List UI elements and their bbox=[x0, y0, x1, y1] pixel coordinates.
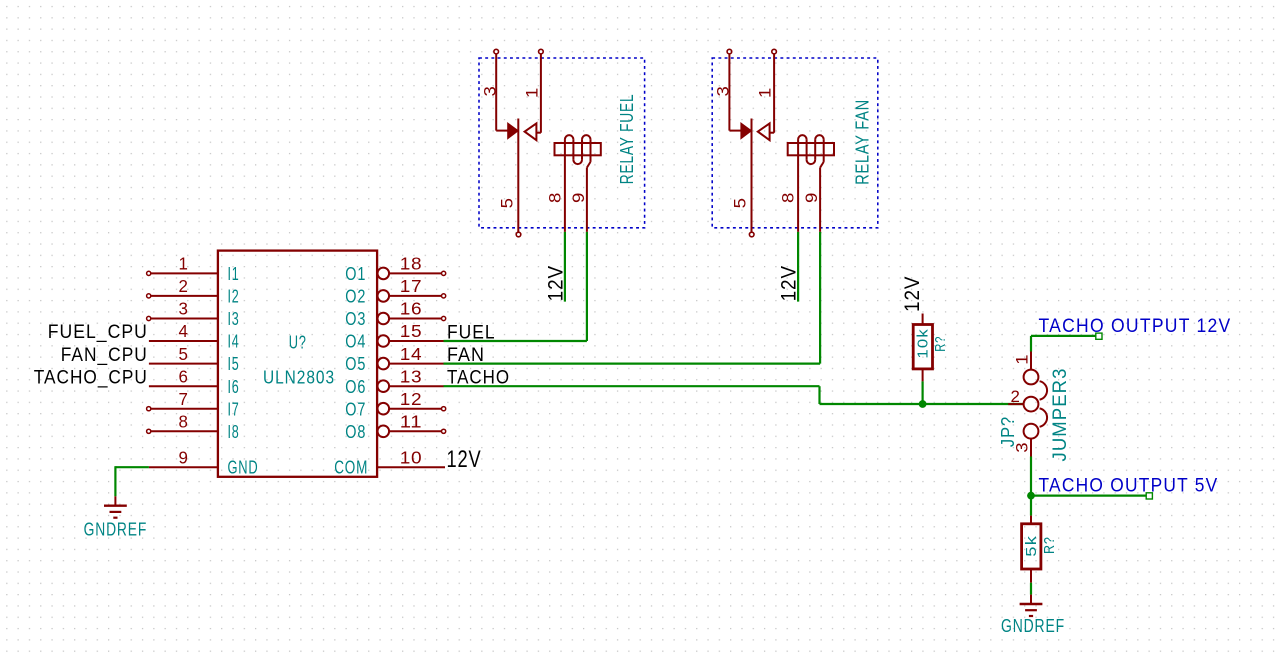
pin 2 (I2) of U? bbox=[147, 276, 240, 306]
resistor R? 5k bbox=[1022, 516, 1041, 583]
svg-text:U?: U? bbox=[289, 333, 307, 353]
relay box RELAY FAN bbox=[712, 58, 878, 228]
svg-text:6: 6 bbox=[179, 366, 189, 386]
svg-text:18: 18 bbox=[400, 254, 423, 274]
jumper pin 2 stub bbox=[1008, 403, 1024, 405]
svg-text:2: 2 bbox=[1011, 388, 1021, 406]
IC U? ULN2803 body bbox=[218, 251, 377, 477]
svg-text:I3: I3 bbox=[228, 309, 240, 329]
svg-text:JUMPER3: JUMPER3 bbox=[1050, 368, 1071, 462]
svg-text:COM: COM bbox=[334, 457, 368, 477]
svg-text:R?: R? bbox=[932, 336, 949, 352]
svg-text:14: 14 bbox=[400, 344, 423, 364]
svg-text:O6: O6 bbox=[345, 377, 366, 397]
svg-text:9: 9 bbox=[570, 192, 588, 203]
svg-text:5: 5 bbox=[732, 197, 750, 208]
pin 15 (O4) of U? bbox=[345, 321, 443, 351]
resistor R? 10k bbox=[913, 314, 932, 382]
svg-text:8: 8 bbox=[546, 192, 564, 203]
relay K? pin 5 (common lever) bbox=[749, 119, 754, 237]
svg-text:TACHO_CPU: TACHO_CPU bbox=[34, 367, 148, 388]
ground GNDREF (right) bbox=[1020, 595, 1043, 616]
svg-text:I7: I7 bbox=[228, 399, 240, 419]
dangling end square (5V output) bbox=[1146, 493, 1152, 499]
pin 13 (O6) of U? bbox=[345, 366, 443, 396]
pin 7 (I7) of U? bbox=[147, 389, 240, 419]
jumper pin 3 stub bbox=[1030, 438, 1032, 456]
svg-text:8: 8 bbox=[780, 192, 798, 203]
svg-text:13: 13 bbox=[400, 366, 423, 386]
pin 8 (I8) of U? bbox=[147, 412, 240, 442]
ground GNDREF (left) bbox=[104, 496, 127, 517]
svg-text:5: 5 bbox=[498, 197, 516, 208]
svg-text:O5: O5 bbox=[345, 354, 366, 374]
svg-text:R?: R? bbox=[1041, 536, 1058, 554]
pin 5 (I5) of U? bbox=[149, 344, 240, 374]
svg-text:I2: I2 bbox=[228, 287, 240, 307]
svg-text:12V: 12V bbox=[900, 276, 924, 313]
wire jumper pin1 up and right bbox=[1031, 336, 1096, 352]
svg-text:JP?: JP? bbox=[998, 416, 1018, 447]
svg-text:1: 1 bbox=[1014, 354, 1032, 365]
svg-text:5k: 5k bbox=[1023, 535, 1040, 557]
svg-text:3: 3 bbox=[715, 86, 733, 97]
pin 9 (GND) of U? bbox=[149, 447, 259, 477]
pin 14 (O5) of U? bbox=[345, 344, 443, 374]
svg-text:10: 10 bbox=[400, 447, 423, 467]
svg-text:11: 11 bbox=[400, 412, 423, 432]
pin 3 (I3) of U? bbox=[147, 299, 240, 329]
junction on TACHO net bbox=[919, 400, 927, 408]
relay K? coil bbox=[555, 135, 601, 232]
svg-text:12V: 12V bbox=[543, 265, 567, 302]
svg-text:RELAY FAN: RELAY FAN bbox=[852, 99, 873, 185]
svg-text:16: 16 bbox=[400, 299, 423, 319]
svg-text:15: 15 bbox=[400, 321, 423, 341]
svg-text:9: 9 bbox=[803, 192, 821, 203]
pin 11 (O8) of U? bbox=[345, 412, 445, 442]
svg-text:FUEL_CPU: FUEL_CPU bbox=[48, 322, 148, 343]
svg-text:O4: O4 bbox=[345, 332, 366, 352]
svg-text:O8: O8 bbox=[345, 422, 366, 442]
svg-text:I5: I5 bbox=[228, 354, 240, 374]
pin 16 (O3) of U? bbox=[345, 299, 445, 329]
svg-text:17: 17 bbox=[400, 276, 423, 296]
svg-text:I6: I6 bbox=[228, 377, 240, 397]
relay K? pin 1 (contact NO) bbox=[525, 49, 544, 140]
jumper JP? JUMPER3 bbox=[1024, 370, 1047, 439]
svg-text:10k: 10k bbox=[915, 328, 932, 359]
relay box RELAY FUEL bbox=[479, 58, 645, 228]
svg-text:9: 9 bbox=[179, 447, 189, 467]
svg-text:RELAY FUEL: RELAY FUEL bbox=[616, 94, 637, 185]
wire FUEL net: relay fuel coil pin 9 down to O4 bbox=[444, 232, 587, 341]
svg-text:I4: I4 bbox=[228, 332, 240, 352]
svg-text:1: 1 bbox=[757, 87, 775, 98]
svg-text:GNDREF: GNDREF bbox=[84, 520, 148, 540]
svg-text:I1: I1 bbox=[228, 264, 240, 284]
svg-text:7: 7 bbox=[179, 389, 189, 409]
svg-text:O3: O3 bbox=[345, 309, 366, 329]
relay K? pin 3 (contact NC) bbox=[494, 49, 518, 138]
relay K? pin 5 (common lever) bbox=[516, 119, 521, 237]
svg-text:3: 3 bbox=[481, 86, 499, 97]
svg-text:GND: GND bbox=[228, 457, 259, 477]
pin 10 (COM) of U? bbox=[334, 447, 445, 477]
svg-text:O1: O1 bbox=[345, 264, 366, 284]
junction TACHO OUTPUT 5V bbox=[1027, 492, 1035, 500]
pin 12 (O7) of U? bbox=[345, 389, 445, 419]
relay K? pin 1 (contact NO) bbox=[758, 49, 777, 140]
wire jumper pin3 down bbox=[1030, 457, 1032, 496]
wire 5k to ground bbox=[1030, 583, 1032, 595]
svg-text:TACHO OUTPUT 5V: TACHO OUTPUT 5V bbox=[1039, 475, 1219, 497]
svg-text:I8: I8 bbox=[228, 422, 240, 442]
pin 4 (I4) of U? bbox=[149, 321, 240, 351]
pin 6 (I6) of U? bbox=[149, 366, 240, 396]
wire GND pin9 to ground bbox=[115, 466, 148, 496]
wire resistor to TACHO net bbox=[921, 381, 923, 404]
svg-text:5: 5 bbox=[179, 344, 189, 364]
wire TACHO net: O6 right, jog down, to jumper pin 2 bbox=[444, 386, 1025, 404]
wire junction down to 5k resistor bbox=[1030, 496, 1032, 516]
svg-text:12V: 12V bbox=[447, 446, 482, 473]
svg-text:2: 2 bbox=[179, 276, 189, 296]
svg-text:3: 3 bbox=[179, 299, 189, 319]
svg-text:12V: 12V bbox=[777, 265, 801, 302]
relay K? pin 3 (contact NC) bbox=[727, 49, 751, 138]
wire 12V to relay fan coil pin 8 bbox=[797, 232, 799, 302]
wire FAN net: relay fan coil pin 9 down to O5 bbox=[444, 232, 821, 364]
jumper pin 1 stub bbox=[1030, 352, 1032, 371]
wire 12V to relay fuel coil pin 8 bbox=[564, 232, 566, 302]
svg-text:8: 8 bbox=[179, 412, 189, 432]
dangling end square (12V output) bbox=[1096, 333, 1102, 339]
pin 1 (I1) of U? bbox=[147, 254, 240, 284]
pin 17 (O2) of U? bbox=[345, 276, 445, 306]
svg-text:O2: O2 bbox=[345, 287, 366, 307]
svg-text:1: 1 bbox=[179, 254, 189, 274]
wire to 5V output square bbox=[1031, 495, 1147, 497]
svg-text:FAN_CPU: FAN_CPU bbox=[61, 345, 148, 366]
svg-text:4: 4 bbox=[179, 321, 189, 341]
relay K? coil bbox=[788, 135, 834, 232]
svg-text:1: 1 bbox=[524, 87, 542, 98]
svg-text:TACHO OUTPUT 12V: TACHO OUTPUT 12V bbox=[1039, 315, 1232, 337]
pin 18 (O1) of U? bbox=[345, 254, 445, 284]
svg-text:ULN2803: ULN2803 bbox=[263, 367, 335, 387]
svg-text:O7: O7 bbox=[345, 399, 366, 419]
svg-text:12: 12 bbox=[400, 389, 423, 409]
svg-text:GNDREF: GNDREF bbox=[1001, 616, 1065, 636]
